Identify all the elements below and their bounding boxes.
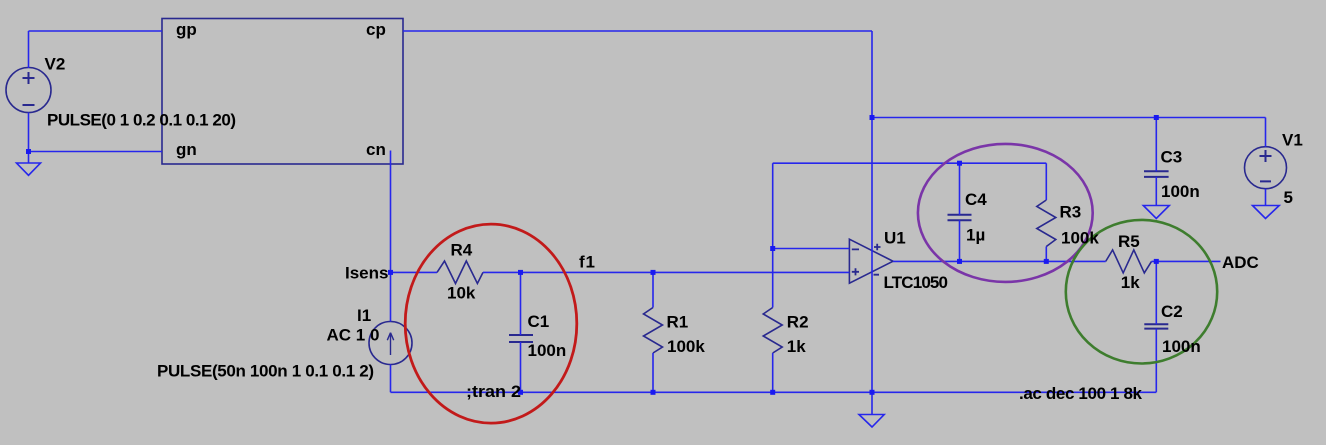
svg-text:1µ: 1µ bbox=[966, 225, 985, 244]
svg-text:5: 5 bbox=[1284, 188, 1293, 207]
svg-text:V2: V2 bbox=[45, 55, 66, 74]
svg-text:10k: 10k bbox=[447, 284, 476, 303]
svg-text:U1: U1 bbox=[884, 229, 906, 248]
svg-text:1k: 1k bbox=[787, 337, 806, 356]
svg-text:100k: 100k bbox=[1061, 229, 1099, 248]
svg-text:V1: V1 bbox=[1282, 131, 1303, 150]
svg-text:Isens: Isens bbox=[345, 264, 388, 283]
svg-text:100n: 100n bbox=[528, 341, 567, 360]
svg-text:PULSE(0 1 0.2 0.1 0.1 20): PULSE(0 1 0.2 0.1 0.1 20) bbox=[47, 111, 236, 130]
svg-text:100n: 100n bbox=[1162, 337, 1201, 356]
svg-text:cn: cn bbox=[366, 140, 386, 159]
svg-text:C3: C3 bbox=[1161, 148, 1183, 167]
svg-text:LTC1050: LTC1050 bbox=[884, 273, 949, 292]
svg-text:;tran 2: ;tran 2 bbox=[466, 382, 521, 401]
svg-text:cp: cp bbox=[366, 20, 386, 39]
svg-text:ADC: ADC bbox=[1222, 253, 1259, 272]
svg-text:1k: 1k bbox=[1121, 273, 1140, 292]
svg-text:C1: C1 bbox=[528, 312, 550, 331]
svg-text:I1: I1 bbox=[357, 306, 371, 325]
svg-text:R1: R1 bbox=[667, 313, 689, 332]
svg-text:R4: R4 bbox=[451, 241, 473, 260]
svg-text:R5: R5 bbox=[1118, 232, 1140, 251]
svg-text:100k: 100k bbox=[667, 337, 705, 356]
svg-text:C2: C2 bbox=[1161, 302, 1183, 321]
svg-text:f1: f1 bbox=[579, 253, 595, 272]
svg-text:R3: R3 bbox=[1060, 203, 1082, 222]
svg-text:100n: 100n bbox=[1161, 182, 1200, 201]
svg-text:gn: gn bbox=[176, 140, 197, 159]
svg-text:gp: gp bbox=[176, 20, 197, 39]
svg-text:.ac dec 100 1 8k: .ac dec 100 1 8k bbox=[1019, 384, 1143, 403]
svg-text:R2: R2 bbox=[787, 313, 809, 332]
svg-text:AC 1 0: AC 1 0 bbox=[327, 326, 380, 345]
svg-text:C4: C4 bbox=[965, 190, 987, 209]
svg-text:PULSE(50n 100n 1 0.1 0.1 2): PULSE(50n 100n 1 0.1 0.1 2) bbox=[157, 362, 374, 381]
